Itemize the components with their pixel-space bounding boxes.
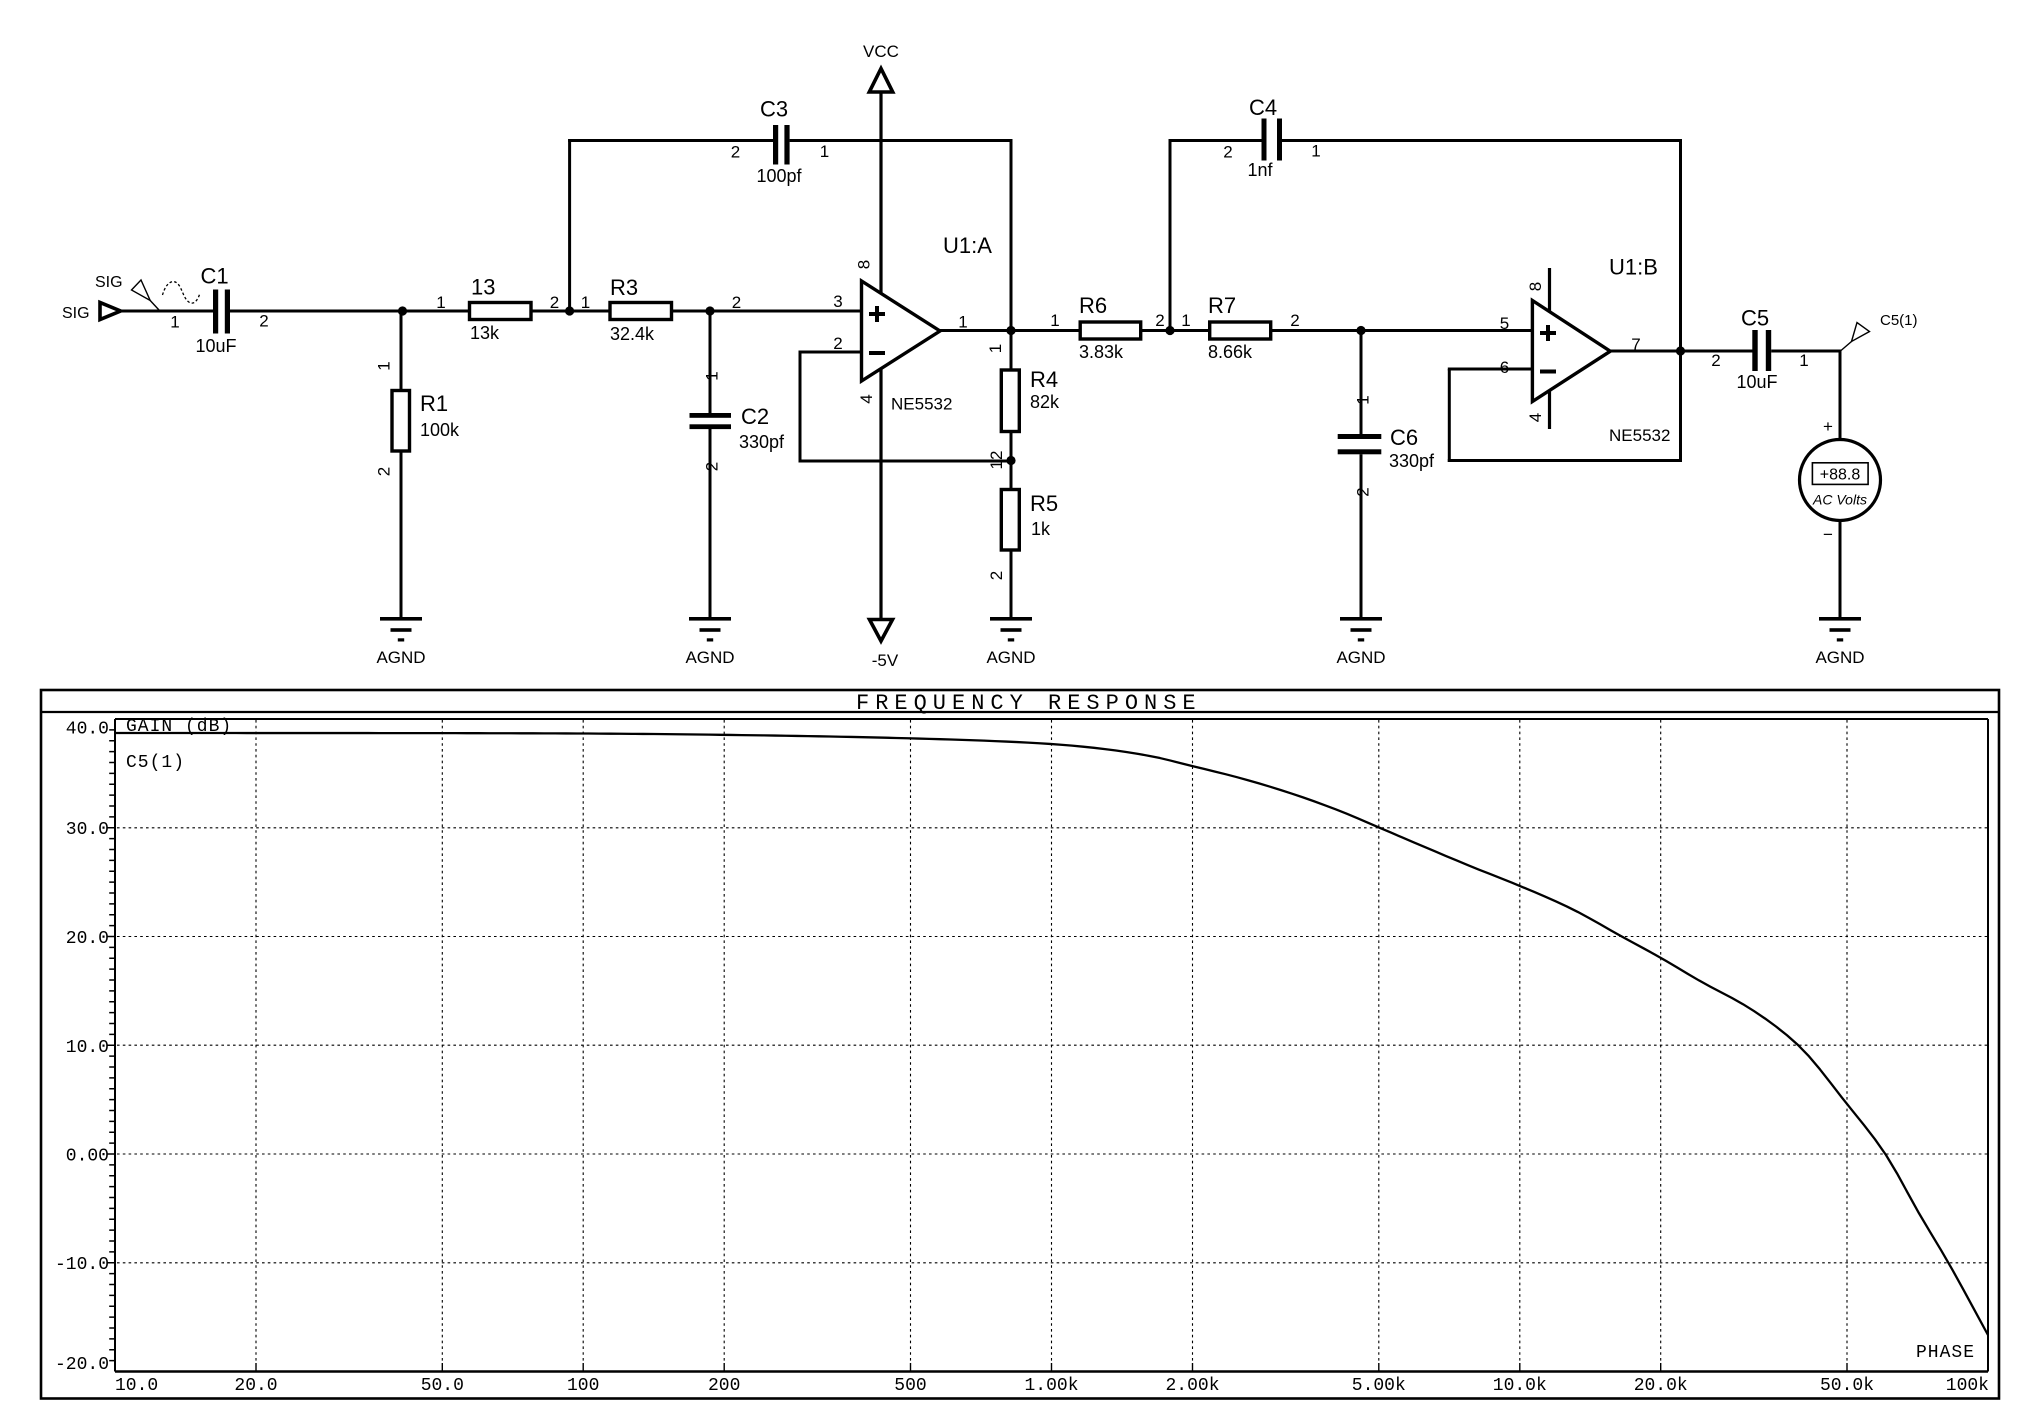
svg-text:1k: 1k — [1031, 519, 1051, 539]
node junction C6 tap — [1356, 326, 1365, 335]
input terminal SIG — [62, 303, 121, 323]
power VCC — [863, 42, 899, 294]
svg-text:100: 100 — [567, 1376, 599, 1396]
svg-text:30.0: 30.0 — [66, 820, 109, 840]
svg-text:330pf: 330pf — [1389, 451, 1435, 471]
svg-text:AGND: AGND — [376, 648, 425, 667]
svg-text:2: 2 — [1290, 311, 1299, 330]
capacitor C2 — [690, 311, 786, 471]
wire U1:B inverting feedback loop — [1448, 369, 1681, 462]
svg-text:82k: 82k — [1030, 392, 1060, 412]
svg-text:C2: C2 — [741, 404, 769, 429]
svg-text:8.66k: 8.66k — [1208, 342, 1253, 362]
svg-text:32.4k: 32.4k — [610, 324, 655, 344]
chart y-axis ticks — [107, 730, 115, 1361]
svg-text:40.0: 40.0 — [66, 720, 109, 740]
chart plot border — [115, 719, 1988, 1372]
wire C3 branch up — [568, 139, 571, 311]
svg-text:2: 2 — [1223, 143, 1232, 162]
resistor R4 — [986, 331, 1060, 432]
svg-text:AGND: AGND — [1336, 648, 1385, 667]
svg-text:2: 2 — [987, 571, 1006, 580]
ground AGND C6 — [1336, 617, 1385, 667]
wire U1:B output — [1610, 350, 1752, 353]
svg-text:4: 4 — [1526, 413, 1545, 422]
svg-text:20.0k: 20.0k — [1634, 1376, 1688, 1396]
svg-text:10.0: 10.0 — [66, 1038, 109, 1058]
svg-text:5: 5 — [1500, 314, 1509, 333]
svg-text:2: 2 — [732, 293, 741, 312]
svg-text:1: 1 — [436, 293, 445, 312]
svg-text:C5: C5 — [1741, 306, 1769, 331]
node junction U1:A output — [1006, 326, 1015, 335]
svg-text:SIG: SIG — [95, 274, 123, 291]
svg-text:8: 8 — [1526, 282, 1545, 291]
svg-text:2: 2 — [375, 467, 394, 476]
svg-text:2: 2 — [731, 143, 740, 162]
svg-text:C4: C4 — [1249, 95, 1277, 120]
resistor R1 — [375, 311, 461, 476]
capacitor C4 — [1223, 95, 1320, 180]
svg-text:20.0: 20.0 — [234, 1376, 277, 1396]
resistor R6 — [1050, 293, 1164, 362]
svg-text:50.0: 50.0 — [421, 1376, 464, 1396]
ground AGND meter — [1815, 617, 1864, 667]
node junction R4/R5 feedback — [1006, 456, 1015, 465]
wire R4 to node — [1010, 432, 1013, 461]
svg-text:2: 2 — [703, 462, 722, 471]
wire C4 loop left — [1169, 139, 1262, 142]
svg-text:−: − — [1823, 525, 1833, 544]
chart y-axis labels — [55, 720, 109, 1376]
svg-text:1: 1 — [581, 293, 590, 312]
svg-text:0.00: 0.00 — [66, 1147, 109, 1167]
wire C3 loop right — [790, 139, 1013, 142]
svg-text:2: 2 — [1354, 487, 1373, 496]
svg-text:NE5532: NE5532 — [1609, 426, 1670, 445]
wire R1 to ground — [400, 451, 403, 618]
svg-text:AGND: AGND — [685, 648, 734, 667]
svg-text:10.0k: 10.0k — [1493, 1376, 1547, 1396]
svg-text:1: 1 — [703, 371, 722, 380]
svg-text:VCC: VCC — [863, 42, 899, 61]
svg-text:R6: R6 — [1079, 293, 1107, 318]
svg-text:U1:A: U1:A — [943, 233, 992, 258]
wire C3 loop down to output node — [1010, 139, 1013, 331]
svg-text:AGND: AGND — [1815, 648, 1864, 667]
ground AGND C2 — [685, 617, 734, 667]
wire meter to ground — [1839, 521, 1842, 619]
wire C5 to meter corner — [1771, 350, 1841, 353]
svg-text:R4: R4 — [1030, 367, 1058, 392]
svg-text:+88.8: +88.8 — [1820, 467, 1861, 484]
svg-text:1: 1 — [958, 313, 967, 332]
chart vertical gridlines — [256, 720, 1847, 1372]
svg-text:10.0: 10.0 — [115, 1376, 158, 1396]
wire C4 loop right — [1282, 139, 1682, 142]
svg-text:3.83k: 3.83k — [1079, 342, 1124, 362]
voltage probe C5(1) — [1841, 312, 1918, 351]
resistor R5 — [987, 461, 1058, 581]
resistor R7 — [1181, 293, 1299, 362]
AC voltmeter — [1800, 417, 1881, 544]
svg-text:AC Volts: AC Volts — [1812, 492, 1867, 508]
svg-text:4: 4 — [857, 394, 876, 403]
svg-text:2: 2 — [833, 334, 842, 353]
wire C4 loop down to U1:B output — [1679, 139, 1682, 462]
svg-text:R7: R7 — [1208, 293, 1236, 318]
wire R6 to R7 — [1141, 329, 1210, 332]
svg-text:12: 12 — [987, 451, 1006, 470]
wire U1:A output — [940, 329, 1080, 332]
svg-text:500: 500 — [894, 1376, 926, 1396]
svg-text:C5(1): C5(1) — [1880, 312, 1918, 329]
wire input rail to C1 — [119, 310, 214, 313]
wire C4 branch up — [1169, 139, 1172, 332]
svg-text:R5: R5 — [1030, 491, 1058, 516]
svg-text:10uF: 10uF — [1736, 372, 1777, 392]
svg-text:1: 1 — [1311, 142, 1320, 161]
wire R3 to U1:A + input — [672, 310, 862, 313]
svg-text:R1: R1 — [420, 391, 448, 416]
svg-text:C1: C1 — [200, 264, 228, 289]
svg-text:20.0: 20.0 — [66, 929, 109, 949]
svg-text:1: 1 — [1050, 311, 1059, 330]
op-amp U1:A — [833, 233, 992, 414]
svg-text:R3: R3 — [610, 275, 638, 300]
svg-text:100pf: 100pf — [756, 166, 802, 186]
svg-text:PHASE: PHASE — [1916, 1343, 1975, 1363]
svg-text:1: 1 — [1354, 395, 1373, 404]
svg-text:2: 2 — [259, 312, 268, 331]
svg-text:2: 2 — [1155, 311, 1164, 330]
svg-text:1: 1 — [1799, 351, 1808, 370]
chart frame — [41, 690, 1999, 1399]
node junction C2 tap — [705, 306, 714, 315]
chart horizontal gridlines — [117, 828, 1987, 1263]
svg-text:100k: 100k — [420, 420, 460, 440]
svg-text:8: 8 — [855, 260, 874, 269]
ground AGND R5 — [986, 617, 1035, 667]
wire C6 to ground — [1360, 454, 1363, 618]
capacitor C1 — [170, 264, 268, 357]
svg-text:50.0k: 50.0k — [1820, 1376, 1874, 1396]
wire R5 to ground — [1010, 550, 1013, 618]
svg-text:200: 200 — [708, 1376, 740, 1396]
svg-text:13k: 13k — [470, 323, 500, 343]
svg-text:330pf: 330pf — [739, 432, 785, 452]
svg-text:2: 2 — [1711, 351, 1720, 370]
wire C1 to resistor 13 — [230, 310, 470, 313]
svg-text:U1:B: U1:B — [1609, 255, 1658, 280]
svg-text:SIG: SIG — [62, 305, 90, 322]
svg-text:100k: 100k — [1946, 1376, 1989, 1396]
svg-text:1: 1 — [986, 344, 1005, 353]
node junction C4 tap — [1165, 326, 1174, 335]
power -5V — [870, 369, 899, 671]
capacitor C5 — [1711, 306, 1808, 393]
capacitor C3 — [731, 97, 829, 187]
node junction at R1 tap — [398, 306, 407, 315]
svg-text:1nf: 1nf — [1247, 160, 1273, 180]
svg-text:10uF: 10uF — [195, 336, 236, 356]
svg-text:2.00k: 2.00k — [1165, 1376, 1219, 1396]
svg-text:AGND: AGND — [986, 648, 1035, 667]
AC generator probe SIG — [95, 274, 200, 310]
svg-text:1: 1 — [375, 361, 394, 370]
response curve C5(1) — [115, 733, 1988, 1335]
svg-text:NE5532: NE5532 — [891, 395, 952, 414]
wire C2 to ground — [709, 429, 712, 618]
ground AGND R1 — [376, 617, 425, 667]
svg-text:C3: C3 — [760, 97, 788, 122]
capacitor C6 — [1338, 331, 1435, 497]
chart x-axis labels — [115, 1376, 1989, 1396]
node junction U1:B output — [1676, 346, 1685, 355]
svg-text:-20.0: -20.0 — [55, 1355, 109, 1375]
svg-text:-10.0: -10.0 — [55, 1255, 109, 1275]
svg-text:13: 13 — [471, 275, 495, 300]
svg-text:1: 1 — [820, 142, 829, 161]
svg-text:1.00k: 1.00k — [1024, 1376, 1078, 1396]
svg-text:FREQUENCY RESPONSE: FREQUENCY RESPONSE — [856, 691, 1202, 716]
resistor 13 (13k) — [436, 275, 559, 344]
node junction C3 tap — [565, 306, 574, 315]
svg-text:1: 1 — [170, 313, 179, 332]
wire R7 to U1:B — [1271, 329, 1533, 332]
svg-text:2: 2 — [550, 293, 559, 312]
svg-text:C6: C6 — [1390, 425, 1418, 450]
wire C3 loop left — [568, 139, 773, 142]
op-amp U1:B — [1500, 255, 1671, 446]
svg-text:-5V: -5V — [872, 651, 899, 670]
wire 13 to R3 — [531, 310, 610, 313]
svg-text:5.00k: 5.00k — [1352, 1376, 1406, 1396]
resistor R3 — [581, 275, 741, 344]
svg-text:+: + — [1823, 417, 1833, 436]
wire U1:A inverting feedback loop — [799, 352, 1013, 463]
svg-text:C5(1): C5(1) — [126, 753, 185, 773]
svg-text:3: 3 — [833, 292, 842, 311]
svg-text:1: 1 — [1181, 311, 1190, 330]
